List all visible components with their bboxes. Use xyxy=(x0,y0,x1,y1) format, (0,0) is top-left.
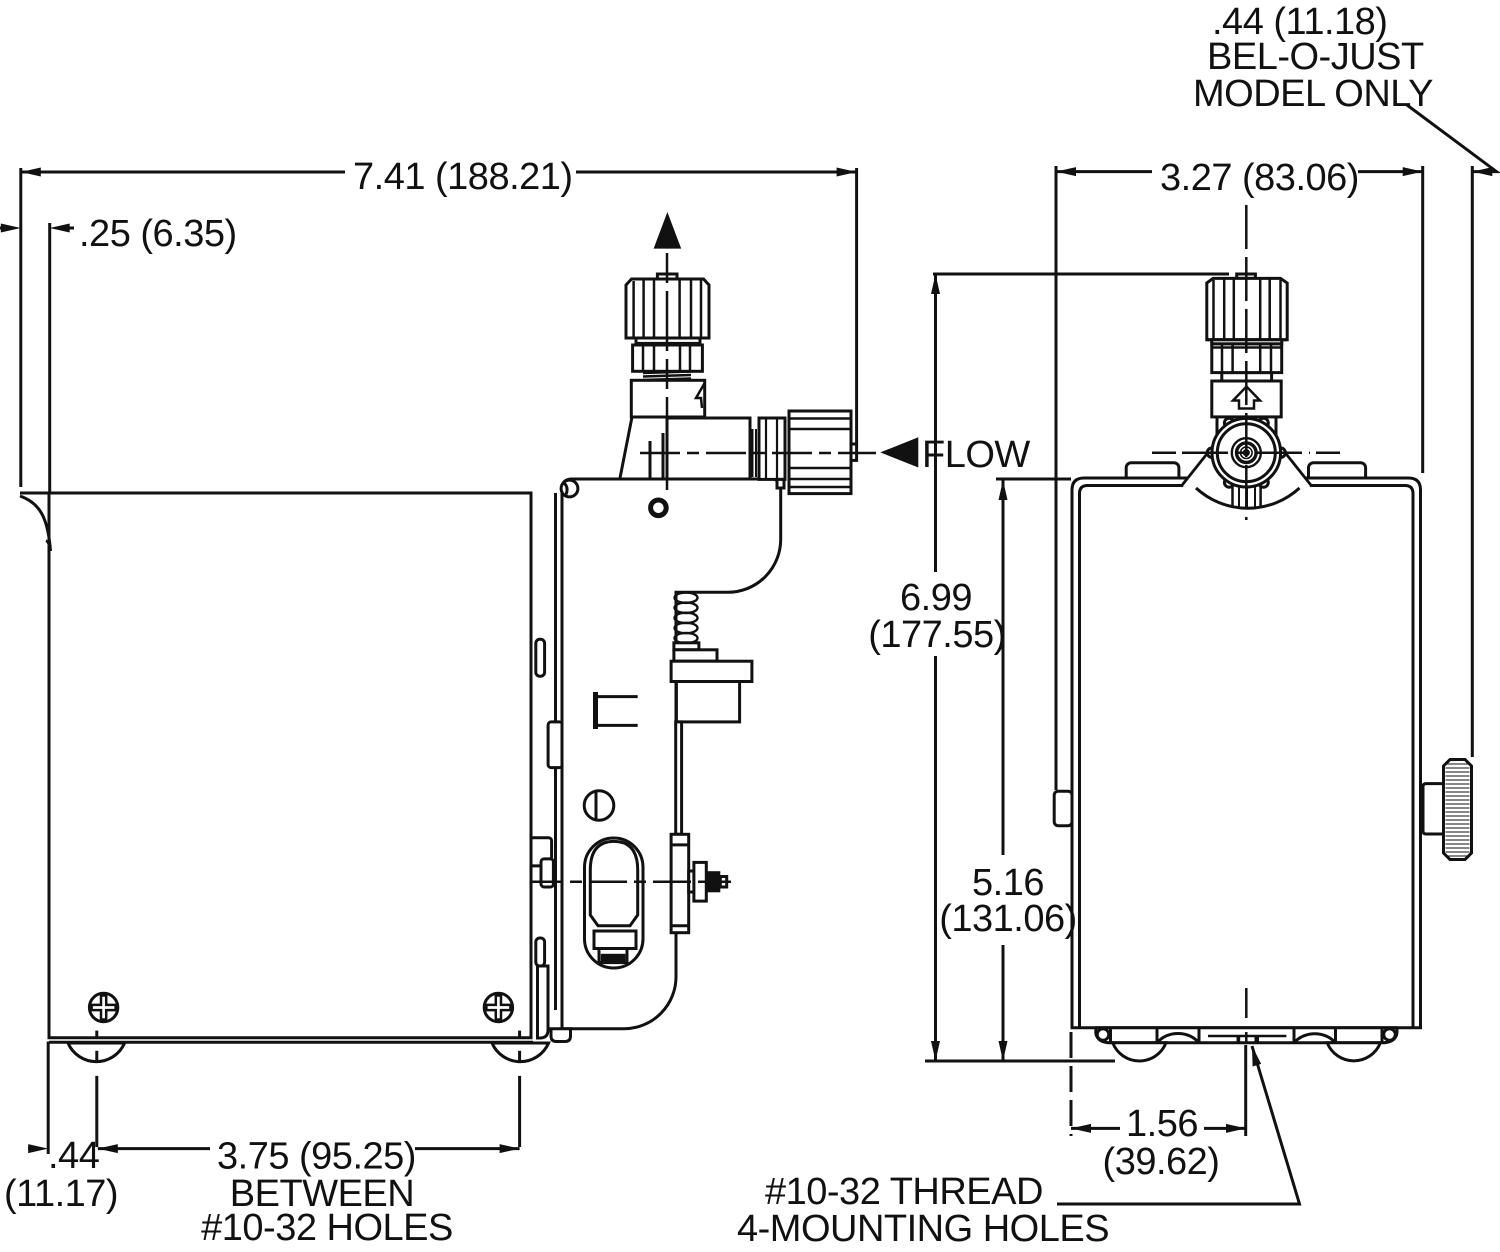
valve boss xyxy=(1181,450,1312,508)
foot centrelines xyxy=(97,1031,520,1147)
front feet xyxy=(1113,1043,1166,1061)
ext line right of 7.41 xyxy=(855,168,858,443)
dim .25 (6.35) xyxy=(1,224,21,233)
leader line to mounting hole xyxy=(1057,1046,1300,1204)
enclosure box (side view) xyxy=(49,493,531,1038)
phillips screw right xyxy=(484,993,512,1021)
valve head circles xyxy=(1212,418,1281,487)
thin bracket xyxy=(676,722,682,834)
pump plate inner edge line xyxy=(554,493,557,1010)
block C boss xyxy=(671,834,689,932)
pump head plate xyxy=(562,479,781,1029)
thread rings xyxy=(643,372,691,382)
ext lines 3.27 / .44 xyxy=(1055,166,1058,790)
svg-text:(11.17): (11.17) xyxy=(4,1173,118,1215)
obround slot xyxy=(585,838,644,968)
horizontal centreline xyxy=(640,452,876,455)
right foot (side view) xyxy=(492,1043,549,1062)
dim .44 (11.17) bottom left xyxy=(28,1147,30,1150)
svg-text:MODEL ONLY: MODEL ONLY xyxy=(1193,73,1433,115)
ext line left of 7.41 xyxy=(19,168,22,487)
phillips screw left xyxy=(89,993,117,1021)
clip tab c xyxy=(530,838,552,866)
svg-text:FLOW: FLOW xyxy=(922,434,1030,476)
head lobes xyxy=(1207,418,1285,487)
hollow up arrow xyxy=(1233,387,1260,409)
plate hole xyxy=(651,500,667,516)
dim 6.99 (177.55) xyxy=(933,273,1229,276)
big knurled nut xyxy=(789,411,851,494)
top tabs xyxy=(1126,463,1179,485)
side knob neck xyxy=(1423,784,1444,834)
up arrow xyxy=(654,212,682,249)
base plate xyxy=(1096,1028,1397,1043)
knob (front) xyxy=(1237,274,1256,278)
vertical centreline top xyxy=(1245,205,1248,520)
base end curls xyxy=(1097,1029,1109,1041)
svg-text:#10-32 THREAD: #10-32 THREAD xyxy=(765,1171,1043,1213)
boss bottom arc xyxy=(1196,488,1300,508)
boss left diagonal xyxy=(1181,450,1210,487)
horizontal crosshair xyxy=(1182,451,1310,454)
dim 3.27 (83.06) xyxy=(1056,170,1152,173)
horizontal barrel xyxy=(667,418,750,479)
svg-text:1.56: 1.56 xyxy=(1126,1103,1198,1145)
svg-text:.25 (6.35): .25 (6.35) xyxy=(79,213,237,255)
bottom ref line xyxy=(925,1060,1115,1063)
spring xyxy=(675,593,698,644)
stem sides under head xyxy=(1233,485,1261,507)
boss right diagonal xyxy=(1283,450,1312,487)
follower nut xyxy=(594,931,636,949)
knurled nut (front) xyxy=(1212,344,1282,373)
lower bracket diagonals xyxy=(620,417,632,478)
clip lower xyxy=(538,966,549,1038)
svg-text:6.99: 6.99 xyxy=(900,577,972,619)
ext line shared .25/.44 xyxy=(48,223,51,493)
svg-text:3.27 (83.06): 3.27 (83.06) xyxy=(1160,157,1359,199)
dim 5.16 (131.06) xyxy=(996,478,1071,481)
svg-text:3.75 (95.25): 3.75 (95.25) xyxy=(217,1136,416,1178)
svg-text:BEL-O-JUST: BEL-O-JUST xyxy=(1207,36,1424,78)
vertical centreline bottom xyxy=(1245,988,1248,1018)
knurled nut (side) xyxy=(633,345,703,371)
side bolt xyxy=(689,871,695,892)
centre line through bolt xyxy=(525,881,731,884)
knob neck xyxy=(636,338,700,343)
svg-text:4-MOUNTING HOLES: 4-MOUNTING HOLES xyxy=(737,1208,1109,1250)
svg-text:(131.06): (131.06) xyxy=(939,898,1077,940)
clip tab b xyxy=(548,722,562,768)
torn corner xyxy=(20,496,51,551)
port tip xyxy=(851,444,857,460)
spring seat xyxy=(674,650,717,661)
svg-text:#10-32 HOLES: #10-32 HOLES xyxy=(201,1207,453,1249)
svg-text:.44: .44 xyxy=(48,1135,100,1177)
block A xyxy=(671,661,752,681)
valve body (side) xyxy=(631,380,704,417)
body block (front) xyxy=(1212,381,1281,417)
side knob (knurled) xyxy=(1444,760,1472,860)
spring flange xyxy=(674,643,699,650)
centre tab xyxy=(1208,1035,1286,1038)
FLOW arrow xyxy=(880,437,918,467)
dim 1.56 (39.62) xyxy=(1071,1127,1120,1130)
thread zone xyxy=(752,429,754,477)
follower block xyxy=(590,841,637,925)
side tab (left) xyxy=(1054,791,1072,826)
ferrule nut xyxy=(759,418,785,479)
clip tab e xyxy=(536,938,545,966)
plate bottom tab xyxy=(551,1029,571,1042)
slotted screw xyxy=(584,791,614,821)
thread (front) xyxy=(1222,373,1272,381)
knob (side) xyxy=(657,274,677,279)
rear feet tops xyxy=(1157,1034,1199,1043)
svg-text:(39.62): (39.62) xyxy=(1103,1141,1220,1183)
dim 3.75 (95.25) xyxy=(98,1144,118,1153)
clip tab d xyxy=(541,859,553,887)
bonnet stem stubs xyxy=(1216,417,1219,437)
left foot (side view) xyxy=(68,1043,125,1062)
T bracket xyxy=(593,692,598,729)
svg-text:(177.55): (177.55) xyxy=(868,614,1006,656)
plate corner curl xyxy=(561,480,578,497)
leader arrowhead xyxy=(1252,1046,1261,1067)
leader from MODEL ONLY xyxy=(1407,105,1497,172)
block B xyxy=(676,682,739,722)
clip tab a xyxy=(536,639,545,676)
base dividers xyxy=(1111,1028,1383,1043)
enclosure inner bezel xyxy=(1080,486,1414,1028)
svg-text:7.41 (188.21): 7.41 (188.21) xyxy=(353,156,573,198)
vertical centreline xyxy=(666,253,669,490)
enclosure outer xyxy=(1072,478,1421,1028)
dim 7.41 (188.21) xyxy=(21,171,345,174)
